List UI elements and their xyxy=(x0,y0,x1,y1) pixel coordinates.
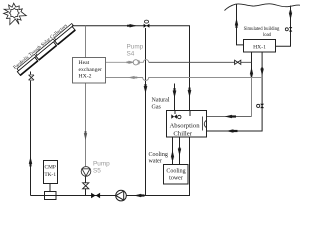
svg-text:Gas: Gas xyxy=(152,105,162,111)
svg-text:Absorption: Absorption xyxy=(169,122,200,129)
svg-text:HX-2: HX-2 xyxy=(79,74,92,80)
svg-text:load: load xyxy=(263,33,272,38)
svg-text:Heat: Heat xyxy=(79,60,90,66)
svg-text:exchanger: exchanger xyxy=(79,67,102,73)
svg-text:HX-1: HX-1 xyxy=(253,45,266,51)
svg-text:tower: tower xyxy=(169,175,183,181)
svg-text:Simulated building: Simulated building xyxy=(244,27,280,32)
svg-text:Natural: Natural xyxy=(152,98,170,104)
svg-text:Pump: Pump xyxy=(127,44,144,51)
svg-text:CMP: CMP xyxy=(45,165,56,171)
svg-text:Chiller: Chiller xyxy=(173,130,192,137)
svg-text:S5: S5 xyxy=(93,168,101,175)
svg-text:Cooling: Cooling xyxy=(166,169,185,175)
svg-text:Pump: Pump xyxy=(93,161,110,168)
svg-text:S4: S4 xyxy=(127,51,135,58)
svg-text:water: water xyxy=(149,159,162,165)
svg-text:Cooling: Cooling xyxy=(149,152,168,158)
svg-text:TK-1: TK-1 xyxy=(44,172,56,178)
